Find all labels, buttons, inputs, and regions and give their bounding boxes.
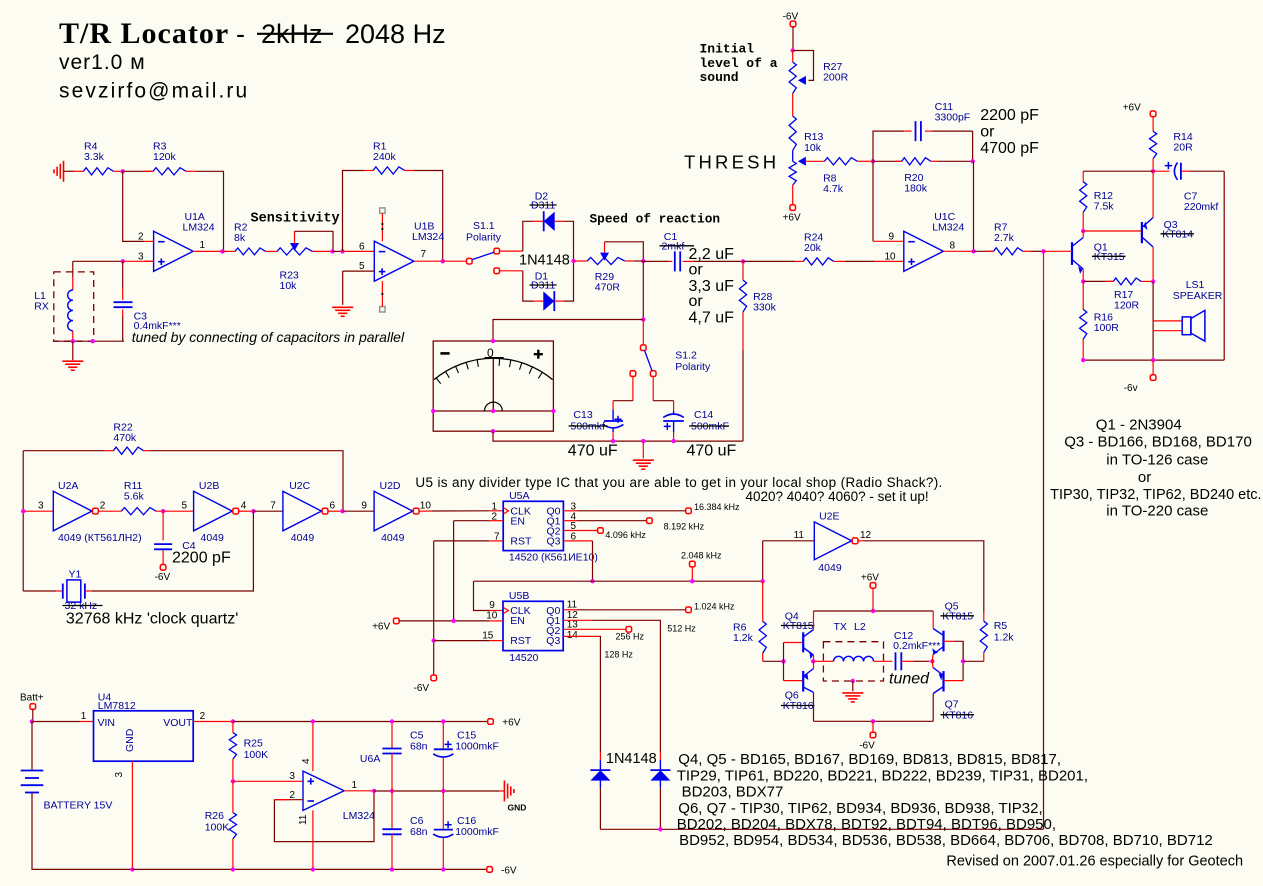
terminal -6V C4 xyxy=(155,565,171,584)
junction Q3/rail xyxy=(590,579,594,583)
junction R27 top xyxy=(791,48,795,52)
tap 1.024 kHz xyxy=(686,607,692,613)
svg-text:L2: L2 xyxy=(854,621,866,633)
svg-text:100K: 100K xyxy=(205,822,230,834)
resistor R25 xyxy=(229,722,268,782)
switch throw down S1.1 xyxy=(494,268,500,274)
wire bottom output rail xyxy=(1083,359,1224,361)
wire xyxy=(333,250,343,252)
wire C11 right down xyxy=(972,131,974,161)
wire xyxy=(64,170,75,172)
svg-text:10: 10 xyxy=(885,252,897,263)
junction pin11 rail xyxy=(311,867,315,871)
svg-text:0: 0 xyxy=(487,346,494,360)
svg-text:4700 pF: 4700 pF xyxy=(980,140,1039,157)
terminal xyxy=(431,675,437,681)
junction diode output xyxy=(571,259,575,263)
svg-text:THRESH: THRESH xyxy=(684,151,779,172)
svg-text:8k: 8k xyxy=(234,232,246,244)
svg-text:14: 14 xyxy=(567,630,579,641)
svg-text:32768 kHz 'clock quartz': 32768 kHz 'clock quartz' xyxy=(66,610,238,627)
resistor R14 xyxy=(1150,117,1194,172)
wire throw-left to C13 xyxy=(613,400,633,402)
svg-text:1.024 kHz: 1.024 kHz xyxy=(694,601,735,611)
svg-text:7: 7 xyxy=(421,249,427,260)
svg-text:C13: C13 xyxy=(573,409,592,421)
switch throw left S1.2 xyxy=(630,371,636,377)
svg-text:10: 10 xyxy=(420,500,432,511)
resistor R20 xyxy=(873,158,973,195)
wire input from rail xyxy=(762,541,764,581)
diode D1 xyxy=(530,271,564,312)
svg-text:4,7 uF: 4,7 uF xyxy=(689,310,735,327)
svg-text:6: 6 xyxy=(359,242,365,253)
svg-text:5: 5 xyxy=(359,261,365,272)
svg-text:68n: 68n xyxy=(410,741,428,753)
wire xyxy=(1043,251,1045,320)
junction C14 bottom xyxy=(671,439,675,443)
junction U1A output xyxy=(220,249,224,253)
wire U2E out to R5 xyxy=(864,541,984,612)
junction C13 bottom xyxy=(611,439,615,443)
svg-text:2,2 uF: 2,2 uF xyxy=(689,246,735,263)
svg-text:1N4148: 1N4148 xyxy=(519,253,570,269)
wire to meter top xyxy=(493,320,643,342)
svg-text:LM324: LM324 xyxy=(343,810,375,822)
svg-text:VOUT: VOUT xyxy=(163,717,193,729)
terminal xyxy=(870,583,876,589)
inverter U2D xyxy=(361,480,431,544)
wire right side xyxy=(1223,171,1225,360)
svg-text:4049 (КТ561ЛН2): 4049 (КТ561ЛН2) xyxy=(58,532,142,544)
junction R4/R3 node xyxy=(121,169,125,173)
terminal xyxy=(30,704,36,710)
junction U4 gnd/rail xyxy=(130,867,134,871)
wire to speaker/-6v xyxy=(1152,281,1154,360)
svg-text:S1.1: S1.1 xyxy=(473,220,495,232)
svg-text:ver1.0 м: ver1.0 м xyxy=(59,51,146,74)
wire xyxy=(123,260,154,262)
wire xyxy=(32,721,80,723)
potentiometer R13 xyxy=(789,116,824,185)
label capacitor values xyxy=(689,246,735,327)
svg-text:TIP30, TIP32, TIP62, BD240 et: TIP30, TIP32, TIP62, BD240 etc. xyxy=(1050,487,1261,503)
capacitor C13 xyxy=(569,409,624,441)
svg-text:BD203, BDX77: BD203, BDX77 xyxy=(682,784,784,801)
terminal +6V rail xyxy=(488,718,521,729)
svg-text:1: 1 xyxy=(81,711,87,722)
wire U1B pin5 xyxy=(343,270,375,272)
svg-text:Y1: Y1 xyxy=(69,568,82,580)
wire xyxy=(414,260,442,262)
note U5 divider xyxy=(415,475,942,504)
wire xyxy=(163,510,194,512)
wire throw-right to C14 xyxy=(653,400,673,402)
svg-text:470k: 470k xyxy=(113,432,137,444)
terminal xyxy=(1150,375,1156,381)
ground left of R4 xyxy=(54,161,64,182)
inverter U2A xyxy=(38,480,142,544)
svg-text:11: 11 xyxy=(298,814,309,825)
capacitor C7 xyxy=(1153,162,1224,213)
wire R12 top rail xyxy=(1083,170,1153,172)
junction C5 top xyxy=(390,719,394,723)
svg-text:KT814: KT814 xyxy=(1162,229,1193,241)
resistor R1 xyxy=(343,141,443,262)
svg-text:2200 pF: 2200 pF xyxy=(172,550,231,567)
junction R29/C1 xyxy=(641,259,645,263)
wire xyxy=(859,540,865,542)
svg-text:KT816: KT816 xyxy=(942,709,973,721)
switch pole S1.1 xyxy=(467,258,473,264)
terminal -6V divider xyxy=(414,675,437,694)
svg-text:U6A: U6A xyxy=(360,753,380,765)
junction R25/R26 xyxy=(231,779,235,783)
svg-text:Q3: Q3 xyxy=(547,535,561,547)
svg-text:RX: RX xyxy=(34,301,49,313)
transistor Q1 xyxy=(1044,238,1126,274)
transistor Q6 xyxy=(781,669,815,713)
svg-text:C16: C16 xyxy=(457,815,476,827)
terminal +6V TX xyxy=(861,572,879,611)
svg-text:1.2k: 1.2k xyxy=(733,632,754,644)
svg-text:5.6k: 5.6k xyxy=(124,491,145,503)
svg-text:or: or xyxy=(1138,469,1151,486)
wire -6V rail xyxy=(132,868,487,870)
svg-text:+6V: +6V xyxy=(1123,102,1141,113)
svg-text:128 Hz: 128 Hz xyxy=(604,649,633,659)
tap 2.048 kHz xyxy=(681,550,722,581)
junction R23 wiper xyxy=(330,249,334,253)
wire xyxy=(500,270,523,272)
svg-text:Q3: Q3 xyxy=(546,635,560,647)
junction L1 bottom xyxy=(71,339,75,343)
terminal -6V top xyxy=(783,11,799,26)
svg-text:Speed of reaction: Speed of reaction xyxy=(590,212,721,227)
svg-text:GND: GND xyxy=(124,728,136,752)
svg-text:U2E: U2E xyxy=(819,510,839,522)
switch S1.2 xyxy=(630,320,711,377)
op-amp U1B xyxy=(359,221,444,282)
svg-text:SPEAKER: SPEAKER xyxy=(1173,290,1223,302)
svg-text:Q6, Q7 - TIP30, TIP62, BD934,: Q6, Q7 - TIP30, TIP62, BD934, BD936, BD9… xyxy=(678,800,1042,817)
op-amp U1C xyxy=(885,211,974,271)
terminal xyxy=(1150,111,1156,117)
wire -6V to R27 xyxy=(792,27,794,51)
svg-text:U2C: U2C xyxy=(289,480,310,492)
svg-text:7.5k: 7.5k xyxy=(1094,201,1115,213)
svg-text:KT315: KT315 xyxy=(1094,251,1125,263)
svg-text:9: 9 xyxy=(889,232,895,243)
svg-text:11: 11 xyxy=(567,600,578,611)
capacitor C16 xyxy=(433,791,499,869)
junction 2.048 tap xyxy=(690,579,694,583)
svg-text:4049: 4049 xyxy=(291,532,315,544)
label Initial level of a sound xyxy=(700,42,778,85)
svg-text:1000mkF: 1000mkF xyxy=(455,826,499,838)
wire node to U1A pin2 xyxy=(123,171,144,241)
svg-text:U2B: U2B xyxy=(199,480,219,492)
wire to meter net xyxy=(642,261,644,320)
IC U4 LM7812 xyxy=(81,692,206,778)
svg-text:U5B: U5B xyxy=(509,590,529,602)
wire Q2 tap 256 xyxy=(563,627,644,642)
wire Q0 tap xyxy=(563,502,740,514)
svg-text:2: 2 xyxy=(200,711,206,722)
wire base rail left xyxy=(783,643,785,681)
svg-text:-: - xyxy=(236,19,245,49)
terminal xyxy=(690,561,696,567)
capacitor C15 xyxy=(433,722,499,792)
svg-text:4049: 4049 xyxy=(381,532,405,544)
terminal +6V xyxy=(783,205,801,224)
inverter U2A xyxy=(53,491,98,531)
wire xyxy=(500,250,523,252)
wire meter bottom rail xyxy=(493,431,743,441)
wire xyxy=(792,94,794,117)
shield dashed box L1 xyxy=(54,272,94,341)
junction D4 bottom xyxy=(658,827,662,831)
title text xyxy=(59,17,446,103)
wire xyxy=(852,681,854,691)
wire xyxy=(1152,171,1154,217)
svg-text:U2A: U2A xyxy=(58,480,78,492)
wire +6V top rail TX xyxy=(814,610,934,612)
wire R6 to bases xyxy=(763,660,784,662)
svg-text:Batt+: Batt+ xyxy=(20,693,44,704)
terminal +6V divider xyxy=(372,618,399,632)
svg-text:RST: RST xyxy=(510,635,532,647)
wire xyxy=(233,780,303,782)
potentiometer R27 xyxy=(789,51,849,94)
svg-text:TX: TX xyxy=(834,621,847,633)
wire Q3 out xyxy=(563,541,592,581)
svg-text:KT815: KT815 xyxy=(783,620,814,632)
power pin squares U1B xyxy=(380,208,385,312)
svg-text:330k: 330k xyxy=(753,301,777,313)
tap 4.096 kHz xyxy=(598,528,604,534)
junction R17/Q3 collector xyxy=(1151,279,1155,283)
svg-text:68n: 68n xyxy=(410,826,428,838)
junction C12/Q5 Q7 emitters xyxy=(930,659,934,663)
diode D2 xyxy=(530,191,564,232)
ground GND right xyxy=(499,781,526,813)
wire xyxy=(813,661,815,668)
svg-text:or: or xyxy=(689,262,704,279)
junction R5/bases xyxy=(961,659,965,663)
junction C15 top xyxy=(441,719,445,723)
svg-text:6: 6 xyxy=(330,500,336,511)
svg-text:+6V: +6V xyxy=(502,718,520,729)
terminal xyxy=(870,732,876,738)
terminal -6V TX xyxy=(859,721,876,751)
svg-text:240k: 240k xyxy=(373,151,397,163)
ground L1 xyxy=(62,361,83,370)
junction U1C out xyxy=(971,249,975,253)
wire Q0 tap U5B xyxy=(563,601,735,612)
svg-text:EN: EN xyxy=(510,515,525,527)
svg-text:+6V: +6V xyxy=(783,213,801,224)
wire xyxy=(792,185,794,205)
svg-text:Initial: Initial xyxy=(700,42,755,57)
junction U6A out xyxy=(372,789,376,793)
wire Q1 base long vertical xyxy=(1043,320,1045,829)
terminal -6v output xyxy=(1124,360,1156,394)
switch S1.1 xyxy=(466,220,502,274)
wire xyxy=(932,611,934,629)
wire xyxy=(1152,247,1154,281)
wire throw-up to D2 xyxy=(523,221,534,251)
wire U2A input vertical xyxy=(22,451,24,591)
svg-text:RST: RST xyxy=(510,535,532,547)
wire xyxy=(80,721,94,723)
svg-text:10k: 10k xyxy=(280,280,298,292)
capacitor C14 xyxy=(663,409,729,441)
wire Q3 128Hz xyxy=(563,636,633,752)
tap 16.384 kHz xyxy=(686,508,692,514)
svg-text:2mkf: 2mkf xyxy=(662,241,685,253)
svg-text:11: 11 xyxy=(794,530,805,541)
svg-text:14520 (К561ИЕ10): 14520 (К561ИЕ10) xyxy=(509,551,598,563)
svg-text:4.096 kHz: 4.096 kHz xyxy=(605,530,646,540)
transistor Q7 xyxy=(933,668,974,722)
svg-text:GND: GND xyxy=(508,803,527,813)
resistor R4 xyxy=(74,141,123,175)
wire Q1 512Hz xyxy=(563,620,696,752)
svg-text:100K: 100K xyxy=(244,749,269,761)
junction U2B out/Y1 xyxy=(251,509,255,513)
svg-text:LM324: LM324 xyxy=(932,222,964,234)
inverter U2B xyxy=(182,480,247,544)
wire U2E input xyxy=(763,540,815,542)
wire xyxy=(1082,231,1084,238)
svg-text:BD202, BD204, BDX78, BDT92, BD: BD202, BD204, BDX78, BDT92, BDT94, BDT96… xyxy=(677,816,1056,833)
shield dashed box TX xyxy=(823,642,883,681)
inverter U2C xyxy=(270,480,335,544)
svg-text:4.7k: 4.7k xyxy=(823,183,844,195)
svg-text:+6V: +6V xyxy=(372,621,390,632)
svg-text:16.384 kHz: 16.384 kHz xyxy=(694,502,740,512)
note Q1 Q3 types xyxy=(1050,417,1261,520)
wire bottom clamp rail xyxy=(600,828,1043,830)
svg-text:4020? 4040? 4060? - set it up!: 4020? 4040? 4060? - set it up! xyxy=(746,489,929,504)
junction R14/C7 xyxy=(1151,169,1155,173)
wire U5A pin7 xyxy=(434,540,489,542)
svg-text:1: 1 xyxy=(200,240,206,251)
resistor R2 xyxy=(223,222,278,255)
svg-text:2: 2 xyxy=(100,500,106,511)
switch pole S1.2 xyxy=(641,345,647,351)
svg-text:or: or xyxy=(689,293,704,310)
wire Q2 tap xyxy=(563,528,646,540)
svg-text:12: 12 xyxy=(860,530,872,541)
svg-text:4049: 4049 xyxy=(818,562,842,574)
junction R8/R20/C11 xyxy=(871,159,875,163)
potentiometer R29 xyxy=(574,242,644,294)
svg-text:2048 Hz: 2048 Hz xyxy=(345,19,446,49)
diode D4 1N4148 xyxy=(650,752,670,829)
wire pin3 net xyxy=(73,260,123,262)
junction C5/C6 mid xyxy=(390,789,394,793)
junction shield xyxy=(91,339,95,343)
svg-text:-6V: -6V xyxy=(859,740,875,751)
svg-text:3.3k: 3.3k xyxy=(84,151,105,163)
junction pin4 rail xyxy=(311,719,315,723)
wire to GND xyxy=(374,790,499,792)
svg-text:Sensitivity: Sensitivity xyxy=(251,212,340,227)
wire rail to U5B pin9 xyxy=(474,581,490,610)
junction U2A input xyxy=(21,509,25,513)
svg-text:470R: 470R xyxy=(595,282,621,294)
svg-text:7: 7 xyxy=(270,500,276,511)
svg-text:-6V: -6V xyxy=(783,11,799,22)
resistor R8 xyxy=(823,158,873,195)
terminal +6V output xyxy=(1123,102,1156,116)
junction R16 bottom xyxy=(1081,358,1085,362)
svg-text:9: 9 xyxy=(361,500,367,511)
svg-text:S1.2: S1.2 xyxy=(675,350,697,362)
svg-text:or: or xyxy=(980,124,995,141)
svg-text:3: 3 xyxy=(289,771,295,782)
junction R11/C4 xyxy=(161,509,165,513)
op-amp xyxy=(303,771,344,810)
potentiometer R23 xyxy=(277,231,333,292)
wire xyxy=(131,761,133,869)
junction emitters/L2 xyxy=(811,659,815,663)
svg-text:level of a: level of a xyxy=(700,56,778,71)
svg-text:2.7k: 2.7k xyxy=(994,232,1015,244)
wire RST to U5B pin15 xyxy=(434,640,489,642)
svg-text:KT816: KT816 xyxy=(783,700,814,712)
resistor R28 xyxy=(739,261,776,441)
svg-text:Q1 - 2N3904: Q1 - 2N3904 xyxy=(1096,417,1182,434)
resistor R5 xyxy=(963,612,1014,661)
svg-text:LM7812: LM7812 xyxy=(98,700,136,712)
wire xyxy=(634,260,643,262)
label 2200pF or 4700pF xyxy=(980,107,1039,157)
wire pin7 to -6V xyxy=(433,541,435,675)
junction RST net xyxy=(432,638,436,642)
transistor Q4 xyxy=(781,610,815,659)
svg-text:3300pF: 3300pF xyxy=(935,112,971,124)
wire EN rail xyxy=(399,620,489,622)
inverter U2B xyxy=(194,491,239,531)
svg-text:1: 1 xyxy=(352,780,358,791)
junction Q4/Q6 bases xyxy=(781,659,785,663)
wire to U1C pin9 xyxy=(872,161,874,241)
svg-text:1.2k: 1.2k xyxy=(994,631,1015,643)
wire xyxy=(343,510,375,512)
svg-text:100R: 100R xyxy=(1094,322,1120,334)
svg-text:C5: C5 xyxy=(410,729,424,741)
capacitor C3 xyxy=(114,261,181,341)
wire xyxy=(873,240,904,242)
resistor R17 xyxy=(1083,278,1153,312)
capacitor C4 xyxy=(154,511,196,564)
svg-text:220mkf: 220mkf xyxy=(1184,201,1219,213)
svg-text:sevzirfo@mail.ru: sevzirfo@mail.ru xyxy=(59,80,249,103)
resistor R24 xyxy=(743,232,904,266)
wire xyxy=(1082,269,1084,281)
coil L1 xyxy=(34,261,73,341)
svg-text:tuned by connecting of capacit: tuned by connecting of capacitors in par… xyxy=(132,329,405,345)
svg-text:200R: 200R xyxy=(823,72,849,84)
svg-text:LM324: LM324 xyxy=(183,222,215,234)
svg-text:15: 15 xyxy=(482,631,494,642)
wire xyxy=(813,611,815,630)
junction -6V TX xyxy=(871,719,875,723)
wire xyxy=(343,250,375,252)
